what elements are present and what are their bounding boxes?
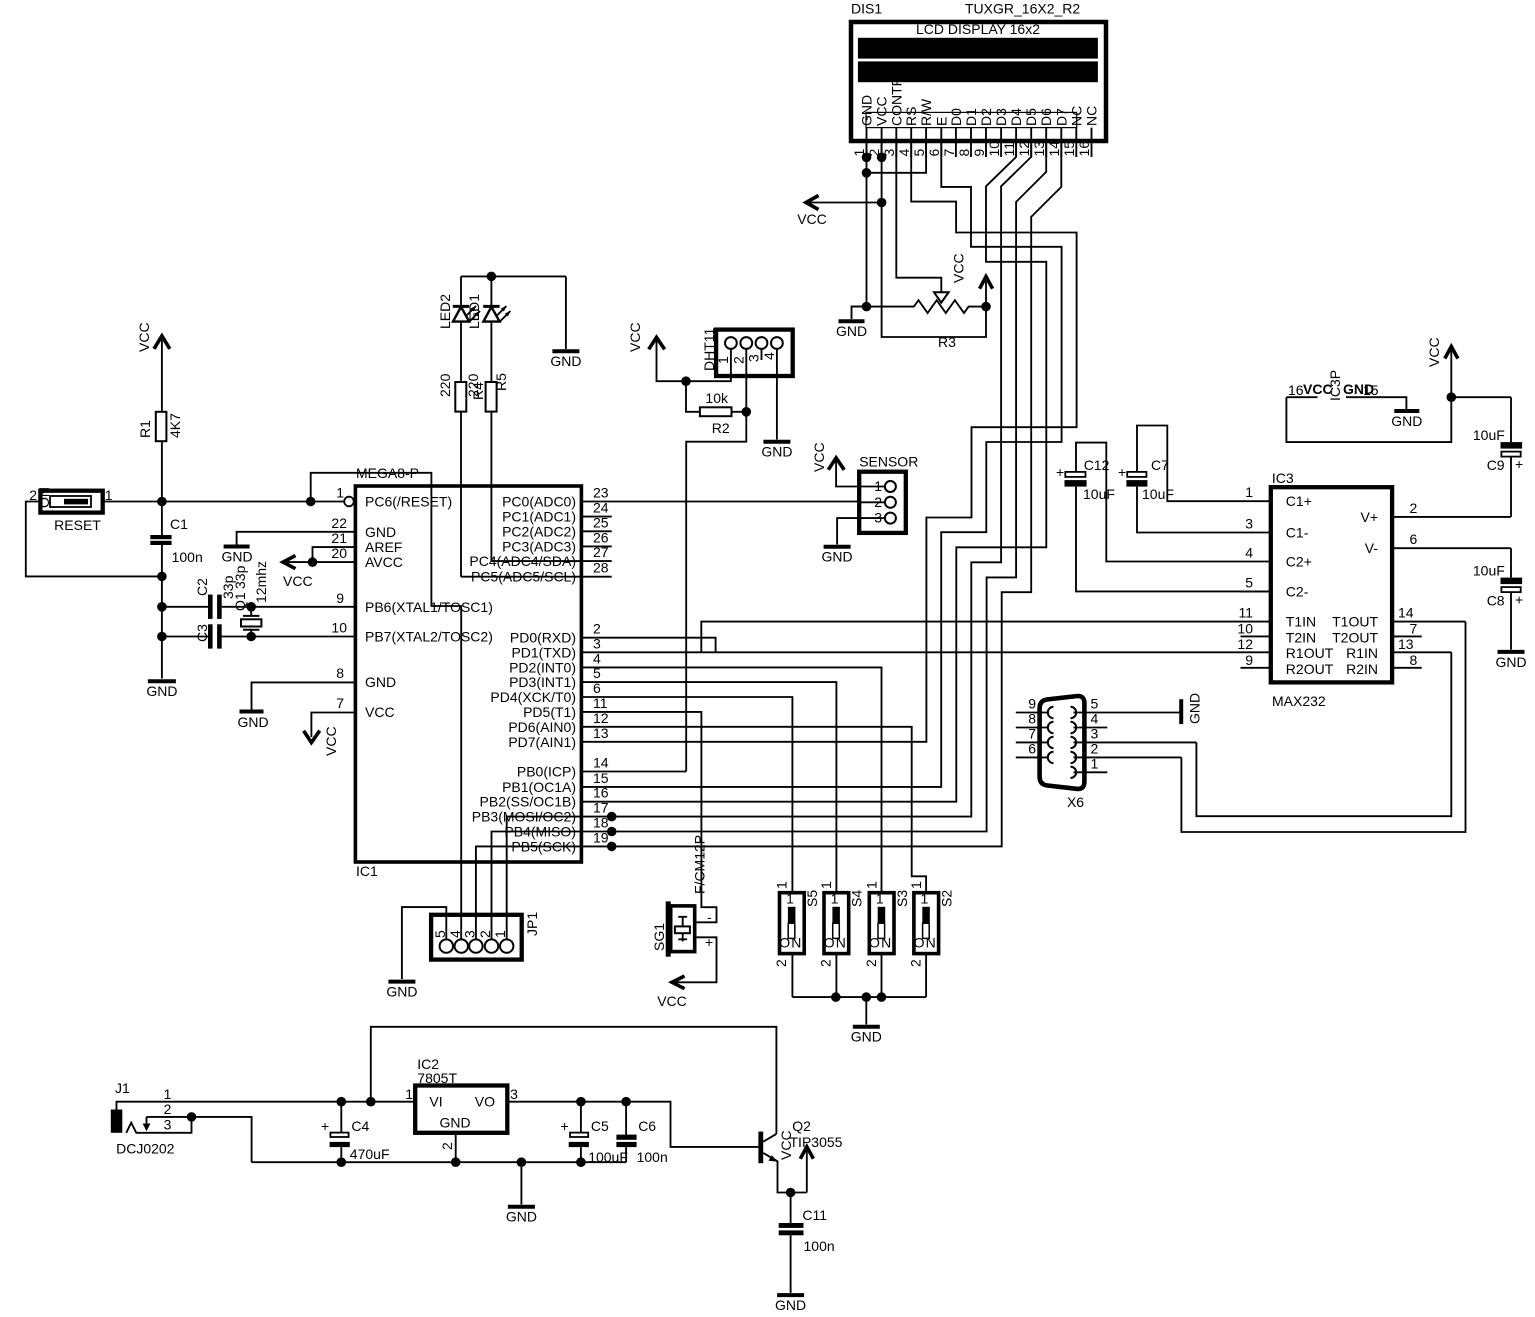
- svg-text:GND: GND: [1187, 693, 1203, 724]
- svg-text:15: 15: [1363, 382, 1379, 398]
- svg-text:10uF: 10uF: [1473, 563, 1505, 579]
- svg-text:11: 11: [1001, 142, 1017, 157]
- svg-text:R2IN: R2IN: [1346, 661, 1378, 677]
- junction dots bottom power: [337, 1097, 347, 1107]
- crystal Q1 12mhz: [232, 561, 269, 641]
- GND at MCU pin8: [237, 682, 355, 730]
- svg-text:Q1: Q1: [232, 592, 248, 611]
- reset switch RESET: [26, 487, 162, 576]
- svg-text:DIS1: DIS1: [851, 1, 882, 17]
- svg-text:PD7(AIN1): PD7(AIN1): [508, 734, 576, 750]
- VCC arrow at LCD pin2: [797, 196, 881, 228]
- GND at MCU pin22: [221, 532, 355, 565]
- svg-text:9: 9: [1028, 696, 1036, 712]
- svg-text:C2: C2: [194, 578, 210, 596]
- LED1: [466, 276, 510, 382]
- svg-text:+: +: [1515, 592, 1523, 608]
- svg-text:4K7: 4K7: [167, 413, 183, 438]
- wire J1 to Q2 collector: [371, 1027, 777, 1134]
- svg-text:C1: C1: [170, 516, 188, 532]
- svg-text:23: 23: [593, 485, 609, 501]
- capacitor C2 33p: [157, 575, 355, 618]
- svg-text:4: 4: [1245, 545, 1253, 561]
- net PD6 to switch S2: [581, 727, 926, 893]
- resistor R5 220: [486, 373, 509, 561]
- VCC arrow at MCU pin7: [304, 713, 356, 757]
- svg-text:VCC: VCC: [951, 253, 967, 283]
- svg-text:PB7(XTAL2/TOSC2): PB7(XTAL2/TOSC2): [365, 629, 493, 645]
- svg-text:TUXGR_16X2_R2: TUXGR_16X2_R2: [965, 1, 1080, 17]
- svg-text:9: 9: [1245, 652, 1253, 668]
- svg-text:VCC: VCC: [657, 993, 687, 1009]
- svg-text:1: 1: [1091, 755, 1099, 771]
- svg-text:TIP3055: TIP3055: [790, 1134, 843, 1150]
- svg-text:Q2: Q2: [792, 1118, 811, 1134]
- svg-text:9: 9: [336, 590, 344, 606]
- svg-text:14: 14: [593, 755, 609, 771]
- net E: LCD pin6 to MCU PB1 pin15: [581, 142, 1061, 787]
- svg-text:VCC: VCC: [811, 442, 827, 472]
- resistor R1 4k7: [137, 338, 183, 502]
- svg-text:6: 6: [1028, 740, 1036, 756]
- svg-text:GND: GND: [859, 95, 875, 126]
- transistor Q2 TIP3055: [758, 1118, 842, 1193]
- svg-text:R1IN: R1IN: [1346, 645, 1378, 661]
- svg-text:C6: C6: [638, 1118, 656, 1134]
- svg-text:VCC: VCC: [136, 322, 152, 352]
- svg-text:7: 7: [336, 695, 344, 711]
- svg-text:VCC: VCC: [797, 211, 827, 227]
- VCC arrow at SENSOR pin1: [811, 442, 859, 486]
- capacitor C3 33p: [157, 565, 355, 648]
- svg-text:IC3P: IC3P: [1327, 370, 1343, 401]
- svg-text:PB5(SCK): PB5(SCK): [511, 838, 576, 854]
- svg-text:R3: R3: [938, 334, 956, 350]
- net RESET: MCU pin1, reset switch, JP1 pin4: [103, 473, 462, 939]
- svg-text:C2-: C2-: [1286, 583, 1309, 599]
- svg-text:AVCC: AVCC: [365, 554, 403, 570]
- svg-text:D2: D2: [978, 108, 994, 126]
- wire LCD pin3 CONTR to R3 wiper: [896, 142, 941, 293]
- svg-text:2: 2: [1091, 740, 1099, 756]
- MCU unconnected right stubs pins 24,25,26: [581, 517, 611, 547]
- switch S2: [907, 881, 954, 997]
- svg-text:J1: J1: [115, 1080, 130, 1096]
- svg-text:1: 1: [336, 485, 344, 501]
- svg-text:1: 1: [715, 356, 731, 364]
- svg-text:2: 2: [1410, 500, 1418, 516]
- net DHT11 data to MCU PB0: [686, 376, 746, 772]
- svg-text:X6: X6: [1067, 794, 1084, 810]
- svg-text:T2OUT: T2OUT: [1332, 629, 1378, 645]
- svg-text:5: 5: [1245, 574, 1253, 590]
- LCD pin number labels 1-16: [851, 141, 1092, 157]
- switch S3: [863, 881, 910, 997]
- svg-text:2: 2: [773, 959, 789, 967]
- net RS: LCD pin4 to MCU PD7 pin13: [581, 142, 1076, 742]
- svg-text:AREF: AREF: [365, 539, 402, 555]
- IC3 pin numbers: [1237, 484, 1253, 668]
- svg-text:S3: S3: [894, 890, 910, 907]
- svg-text:VCC: VCC: [874, 96, 890, 126]
- svg-text:1: 1: [405, 1086, 413, 1102]
- svg-text:GND: GND: [439, 1115, 470, 1131]
- svg-text:1: 1: [874, 478, 882, 494]
- buzzer SG1 F/CM12P: [651, 835, 713, 957]
- svg-text:1: 1: [774, 881, 790, 889]
- net D5: LCD pin12 to MCU PB3 pin17 and JP1 pin1: [507, 142, 1031, 940]
- svg-text:GND: GND: [146, 683, 177, 699]
- svg-text:LCD DISPLAY 16x2: LCD DISPLAY 16x2: [916, 21, 1040, 37]
- capacitor C8 10uF: [1473, 548, 1523, 650]
- svg-text:VCC: VCC: [323, 726, 339, 756]
- svg-text:16: 16: [1076, 141, 1092, 157]
- svg-text:GND: GND: [761, 444, 792, 460]
- svg-text:+: +: [561, 1118, 569, 1134]
- junction dots MCU pins 17,18,19: [607, 812, 617, 822]
- svg-text:PB2(SS/OC1B): PB2(SS/OC1B): [480, 794, 576, 810]
- svg-text:2: 2: [863, 959, 879, 967]
- svg-text:1: 1: [1245, 484, 1253, 500]
- svg-text:VI: VI: [429, 1094, 442, 1110]
- svg-text:100n: 100n: [172, 549, 203, 565]
- svg-text:8: 8: [1410, 652, 1418, 668]
- connector JP1: [431, 912, 540, 960]
- svg-text:5: 5: [911, 149, 927, 157]
- svg-text:7: 7: [941, 149, 957, 157]
- svg-text:S5: S5: [804, 890, 820, 907]
- svg-text:+: +: [1515, 456, 1523, 472]
- svg-text:8: 8: [956, 149, 972, 157]
- svg-text:C12: C12: [1084, 457, 1110, 473]
- potentiometer R3: [852, 292, 987, 350]
- svg-text:GND: GND: [506, 1209, 537, 1225]
- svg-text:DCJ0202: DCJ0202: [116, 1141, 175, 1157]
- svg-text:VCC: VCC: [283, 573, 313, 589]
- VCC arrow at MCU pins 20/21 AREF AVCC: [283, 547, 355, 589]
- svg-text:12: 12: [1237, 636, 1253, 652]
- svg-text:12: 12: [1016, 141, 1032, 157]
- IC3 right wires pins 2,6,14,7,13,8: [1392, 517, 1511, 668]
- svg-text:2: 2: [439, 1142, 455, 1150]
- svg-text:1: 1: [164, 1086, 172, 1102]
- svg-text:C11: C11: [802, 1207, 827, 1223]
- svg-text:R/W: R/W: [918, 98, 934, 126]
- svg-text:NC: NC: [1084, 106, 1100, 126]
- bottom ground bus: [252, 1157, 626, 1167]
- resistor R4 220: [437, 373, 486, 576]
- svg-text:1: 1: [831, 890, 839, 906]
- svg-text:ON: ON: [779, 935, 802, 951]
- capacitor C11 100n: [779, 1188, 835, 1293]
- svg-text:5: 5: [1091, 696, 1099, 712]
- svg-text:-: -: [707, 909, 712, 925]
- net PC0 pin23 to SENSOR pin2: [581, 501, 859, 503]
- svg-text:9: 9: [971, 149, 987, 157]
- svg-text:NC: NC: [1068, 106, 1084, 126]
- svg-text:4: 4: [761, 352, 777, 360]
- svg-text:10uF: 10uF: [1473, 427, 1505, 443]
- svg-text:V-: V-: [1365, 540, 1379, 556]
- svg-text:GND: GND: [836, 323, 867, 339]
- svg-text:LED1: LED1: [466, 294, 482, 329]
- svg-text:1: 1: [908, 881, 924, 889]
- capacitor C12 10uF: [1056, 443, 1271, 592]
- svg-text:JP1: JP1: [524, 912, 540, 936]
- GND below bus: [506, 1162, 537, 1224]
- VCC arrow top right: [1426, 337, 1458, 397]
- svg-text:19: 19: [593, 829, 609, 845]
- IC3 left stubs pins 5,10,9: [1241, 591, 1271, 667]
- LCD display DIS1 TUXGR_16X2_R2: [851, 1, 1106, 142]
- svg-text:C5: C5: [591, 1118, 609, 1134]
- svg-text:15: 15: [1061, 141, 1077, 157]
- svg-text:1: 1: [786, 890, 794, 906]
- svg-text:PD2(INT0): PD2(INT0): [509, 659, 576, 675]
- svg-text:2: 2: [907, 959, 923, 967]
- svg-text:GND: GND: [1495, 654, 1526, 670]
- svg-text:ON: ON: [36, 487, 52, 508]
- svg-text:CONTR: CONTR: [888, 76, 904, 126]
- svg-text:C8: C8: [1487, 593, 1505, 609]
- svg-text:14: 14: [1398, 605, 1414, 621]
- svg-text:13: 13: [1031, 141, 1047, 157]
- svg-text:4: 4: [896, 149, 912, 157]
- switch S4: [818, 881, 865, 997]
- svg-text:R1: R1: [137, 420, 153, 438]
- svg-text:PC3(ADC3): PC3(ADC3): [502, 538, 576, 554]
- svg-text:GND: GND: [550, 353, 581, 369]
- capacitor C1 100n: [150, 502, 202, 679]
- svg-text:D7: D7: [1053, 108, 1069, 126]
- MCU IC1 MEGA8-P box: [355, 465, 581, 879]
- svg-text:LED2: LED2: [437, 294, 453, 329]
- svg-text:PD1(TXD): PD1(TXD): [511, 645, 576, 661]
- net D4: LCD pin11 to MCU PB2 pin16: [581, 142, 1046, 802]
- svg-text:GND: GND: [775, 1297, 806, 1313]
- svg-text:2: 2: [477, 930, 493, 938]
- svg-text:3: 3: [164, 1117, 172, 1133]
- svg-text:ON: ON: [869, 935, 892, 951]
- junction dots LCD area: [862, 153, 872, 163]
- svg-text:GND: GND: [851, 1029, 882, 1045]
- svg-text:PB4(MISO): PB4(MISO): [504, 824, 576, 840]
- svg-text:RESET: RESET: [54, 517, 101, 533]
- GND at X6 pin5 (rotated): [1181, 693, 1202, 724]
- net X6 pin2 to MAX232 T1OUT: [1181, 622, 1465, 832]
- svg-text:3: 3: [746, 354, 762, 362]
- svg-text:4: 4: [1091, 711, 1099, 727]
- VCC arrow at DHT11: [627, 322, 731, 386]
- capacitor C6 100n: [616, 1102, 667, 1165]
- svg-text:14: 14: [1046, 141, 1062, 157]
- svg-text:F/CM12P: F/CM12P: [692, 835, 708, 894]
- svg-text:100n: 100n: [637, 1149, 668, 1165]
- svg-text:VCC: VCC: [778, 1130, 794, 1160]
- svg-text:PD6(AIN0): PD6(AIN0): [508, 719, 576, 735]
- GND below C11: [775, 1295, 806, 1313]
- svg-text:1: 1: [876, 890, 884, 906]
- power symbol IC3P: [1286, 370, 1511, 442]
- svg-text:R4: R4: [470, 382, 486, 400]
- svg-text:C2+: C2+: [1286, 554, 1312, 570]
- capacitor C4 470uF: [321, 1102, 390, 1163]
- svg-text:3: 3: [1245, 516, 1253, 532]
- svg-text:18: 18: [593, 815, 609, 831]
- svg-text:S2: S2: [938, 890, 954, 907]
- svg-text:E: E: [933, 117, 949, 126]
- svg-text:PD5(T1): PD5(T1): [523, 704, 576, 720]
- connector DHT11: [701, 327, 793, 376]
- svg-text:16: 16: [1288, 382, 1304, 398]
- svg-text:VO: VO: [475, 1094, 495, 1110]
- svg-text:13: 13: [1398, 636, 1414, 652]
- GND at SENSOR pin3: [822, 518, 860, 564]
- svg-text:T1OUT: T1OUT: [1332, 614, 1378, 630]
- svg-text:1: 1: [864, 881, 880, 889]
- svg-text:2: 2: [874, 494, 882, 510]
- svg-text:R5: R5: [493, 373, 509, 391]
- svg-text:D5: D5: [1023, 108, 1039, 126]
- svg-text:GND: GND: [1391, 413, 1422, 429]
- LCD pin lines and stubs (pins 1-16): [867, 128, 1092, 158]
- svg-text:VCC: VCC: [627, 322, 643, 352]
- svg-text:3: 3: [461, 930, 477, 938]
- svg-text:7805T: 7805T: [417, 1070, 457, 1086]
- svg-text:GND: GND: [237, 714, 268, 730]
- LED top wire and GND: [461, 272, 581, 369]
- svg-text:RS: RS: [903, 107, 919, 126]
- svg-text:ON: ON: [824, 935, 847, 951]
- VCC arrow at R3 right: [951, 253, 993, 306]
- svg-text:D3: D3: [993, 108, 1009, 126]
- switches ground bus and GND: [792, 992, 926, 1044]
- wire LCD pin1 GND column: [866, 142, 868, 307]
- svg-text:10uF: 10uF: [1142, 486, 1174, 502]
- svg-text:PB3(MOSI/OC2): PB3(MOSI/OC2): [472, 809, 576, 825]
- MCU right pin labels: [469, 494, 576, 855]
- svg-text:C7: C7: [1151, 457, 1169, 473]
- svg-text:PD0(RXD): PD0(RXD): [510, 630, 576, 646]
- MCU left pin numbers: [331, 485, 347, 712]
- svg-text:7: 7: [1410, 620, 1418, 636]
- net PD4 to switch S5: [581, 697, 792, 893]
- svg-text:VCC: VCC: [1426, 337, 1442, 367]
- svg-text:PC0(ADC0): PC0(ADC0): [502, 494, 576, 510]
- net PC4 pin27 to R5: [491, 560, 611, 562]
- VCC arrow top left: [136, 322, 170, 352]
- svg-text:PD4(XCK/T0): PD4(XCK/T0): [490, 689, 576, 705]
- svg-text:C9: C9: [1487, 457, 1505, 473]
- GND at DHT11 pin4: [761, 376, 792, 460]
- svg-text:PB0(ICP): PB0(ICP): [517, 764, 576, 780]
- connector X6 DB9: [1016, 696, 1197, 811]
- svg-text:R2OUT: R2OUT: [1286, 661, 1334, 677]
- svg-text:PC1(ADC1): PC1(ADC1): [502, 509, 576, 525]
- svg-text:1: 1: [921, 890, 929, 906]
- svg-text:C1+: C1+: [1286, 493, 1312, 509]
- svg-text:PB1(OC1A): PB1(OC1A): [502, 779, 576, 795]
- svg-text:2: 2: [730, 356, 746, 364]
- svg-text:SG1: SG1: [651, 923, 667, 951]
- svg-text:D0: D0: [948, 108, 964, 126]
- net D6: LCD pin13 to MCU PB4 pin18 and JP1 pin2: [492, 142, 1047, 940]
- svg-text:10: 10: [986, 141, 1002, 157]
- net PD2 to switch S3: [581, 667, 881, 892]
- connector SENSOR: [859, 454, 918, 533]
- svg-text:33p: 33p: [232, 565, 248, 589]
- svg-text:SENSOR: SENSOR: [859, 454, 918, 470]
- svg-text:+: +: [321, 1118, 329, 1134]
- svg-text:D4: D4: [1008, 108, 1024, 126]
- svg-text:DHT11: DHT11: [701, 327, 717, 371]
- svg-text:470uF: 470uF: [350, 1146, 390, 1162]
- svg-text:3: 3: [510, 1086, 518, 1102]
- svg-text:10: 10: [1237, 620, 1253, 636]
- net D7: LCD pin14 to MCU PB5 pin19 and JP1 pin3: [476, 142, 1061, 940]
- LED2: [437, 276, 480, 382]
- svg-text:T1IN: T1IN: [1286, 614, 1316, 630]
- GND at LCD pin1: [836, 307, 867, 339]
- svg-text:11: 11: [1238, 605, 1253, 621]
- svg-text:T2IN: T2IN: [1286, 629, 1316, 645]
- net PD3 to switch S4: [581, 682, 836, 893]
- svg-text:8: 8: [1028, 711, 1036, 727]
- capacitor C7 10uF: [1118, 426, 1271, 533]
- IC3 inside labels: [1286, 493, 1334, 677]
- switch S5: [773, 881, 820, 997]
- svg-text:2: 2: [818, 959, 834, 967]
- svg-text:100n: 100n: [804, 1238, 835, 1254]
- MCU left pin labels: [365, 494, 493, 721]
- resistor R2 10k: [686, 381, 751, 436]
- power jack J1 DCJ0202: [111, 1080, 415, 1162]
- svg-text:PD3(INT1): PD3(INT1): [509, 674, 576, 690]
- svg-text:IC1: IC1: [356, 863, 378, 879]
- wire SG1 plus to VCC arrow: [657, 937, 716, 1009]
- svg-text:3: 3: [1091, 725, 1099, 741]
- net X6 pin3 to MAX232 R1IN: [1196, 652, 1451, 816]
- svg-text:3: 3: [874, 510, 882, 526]
- svg-text:+: +: [1056, 464, 1064, 480]
- svg-text:VCC: VCC: [365, 704, 395, 720]
- net PD0/PD1 to MAX232 T1IN R1OUT: [581, 622, 1270, 653]
- svg-text:C4: C4: [351, 1118, 369, 1134]
- svg-text:PC2(ADC2): PC2(ADC2): [502, 523, 576, 539]
- wire LCD pin2 VCC column to R3 loop: [882, 142, 986, 338]
- LCD pin name labels: [859, 76, 1100, 126]
- svg-text:8: 8: [336, 665, 344, 681]
- svg-text:6: 6: [926, 149, 942, 157]
- svg-text:1: 1: [492, 930, 508, 938]
- svg-text:GND: GND: [386, 984, 417, 1000]
- svg-text:V+: V+: [1360, 509, 1378, 525]
- svg-text:6: 6: [1410, 531, 1418, 547]
- net PC5 pin28 to R4: [461, 576, 612, 578]
- svg-text:R2: R2: [712, 420, 730, 436]
- svg-text:IC3: IC3: [1272, 470, 1294, 486]
- svg-text:S4: S4: [849, 890, 865, 907]
- svg-text:7: 7: [1028, 725, 1036, 741]
- svg-text:220: 220: [437, 373, 453, 397]
- regulator IC2 7805T: [405, 1056, 518, 1162]
- MCU right pin numbers: [593, 485, 609, 846]
- wire LCD pin5 R/W to pin1 link: [867, 142, 927, 173]
- svg-text:12mhz: 12mhz: [253, 561, 269, 603]
- svg-text:ON: ON: [914, 935, 937, 951]
- wire JP1 pin5 to GND: [386, 907, 446, 999]
- svg-text:+: +: [1118, 464, 1126, 480]
